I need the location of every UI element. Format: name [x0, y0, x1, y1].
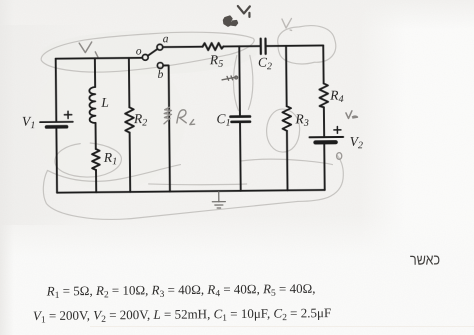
- scribble loop around top-right corner: [278, 25, 336, 64]
- switch pole o: [142, 54, 148, 60]
- scribble hook at V2: [297, 155, 343, 201]
- paper washes: [360, 0, 474, 335]
- scribble oval around R1: [55, 143, 122, 178]
- scribble line near rail: [149, 183, 247, 185]
- wire C2 to corner: [266, 44, 323, 47]
- wire C1 to bottom: [239, 123, 242, 191]
- wire R2 to bottom: [129, 133, 132, 192]
- wire R3 to bottom: [286, 131, 289, 190]
- scribble oval around R3: [266, 109, 299, 152]
- resistor R2: [125, 107, 134, 132]
- wire left edge vertical: [55, 59, 58, 121]
- wire R2 branch top: [128, 58, 131, 107]
- wire R3 branch top: [285, 46, 288, 106]
- resistor R5: [203, 43, 224, 50]
- resistor R1: [92, 149, 100, 170]
- wire R1 to bottom: [95, 170, 97, 192]
- scribble arrow mark on C1 wire: [222, 76, 238, 80]
- wire L branch top: [94, 58, 96, 87]
- capacitor C2: [260, 39, 262, 54]
- switch contact b: [157, 63, 163, 69]
- svg-text:o: o: [136, 45, 142, 57]
- scribble dark V1 at top: [238, 6, 250, 17]
- scribble loop around C1 branch: [233, 56, 238, 111]
- scribble big ellipse around top rail: [41, 32, 255, 73]
- scribble line mid right: [240, 158, 332, 165]
- wire C1 branch top: [238, 46, 241, 115]
- plus sign V2: [334, 126, 341, 133]
- svg-text:כאשר: כאשר: [410, 250, 440, 268]
- wire from b down: [163, 65, 170, 191]
- scribble lasso around bottom: [47, 165, 180, 182]
- wire right edge top: [322, 45, 324, 83]
- scribble 0 below V2: [337, 153, 342, 160]
- scribble R label: [177, 110, 187, 123]
- paper gray wash over circuit: [41, 29, 257, 75]
- resistor R3: [282, 106, 291, 131]
- scribble dark blobs: [223, 16, 237, 26]
- page edge speckle: [90, 326, 474, 327]
- wire R4 to V2: [323, 107, 325, 136]
- wire R5 to C2: [223, 45, 260, 47]
- wire top-left rail: [56, 57, 142, 60]
- wire battery V1 to bottom rail: [55, 128, 58, 192]
- scribble bottom arc: [43, 168, 298, 220]
- svg-text:L: L: [100, 95, 109, 110]
- scribble loop around C1 branch right side: [248, 55, 253, 109]
- svg-text:a: a: [163, 33, 169, 45]
- battery V1: [40, 121, 73, 123]
- resistor R4: [319, 83, 328, 107]
- pencil R annotation next to b wire: [164, 107, 195, 125]
- wire a to R5: [163, 46, 203, 48]
- switch arm: [148, 49, 158, 56]
- wire bottom rail: [57, 190, 325, 193]
- plus sign V1: [64, 111, 71, 118]
- wire V2 to bottom: [323, 144, 325, 189]
- svg-text:b: b: [157, 69, 163, 81]
- scribble resistor on b wire: [164, 107, 172, 124]
- wire L to R1: [95, 123, 97, 149]
- capacitor C1: [230, 115, 249, 118]
- inductor L: [89, 87, 95, 123]
- battery V2: [309, 136, 343, 138]
- scribble faint V mark top-right: [282, 18, 292, 30]
- ground: [212, 192, 225, 208]
- scribble V1 handwritten on left rail: [79, 42, 98, 57]
- switch contact a: [157, 44, 163, 50]
- scribble check mark near V2: [346, 111, 358, 119]
